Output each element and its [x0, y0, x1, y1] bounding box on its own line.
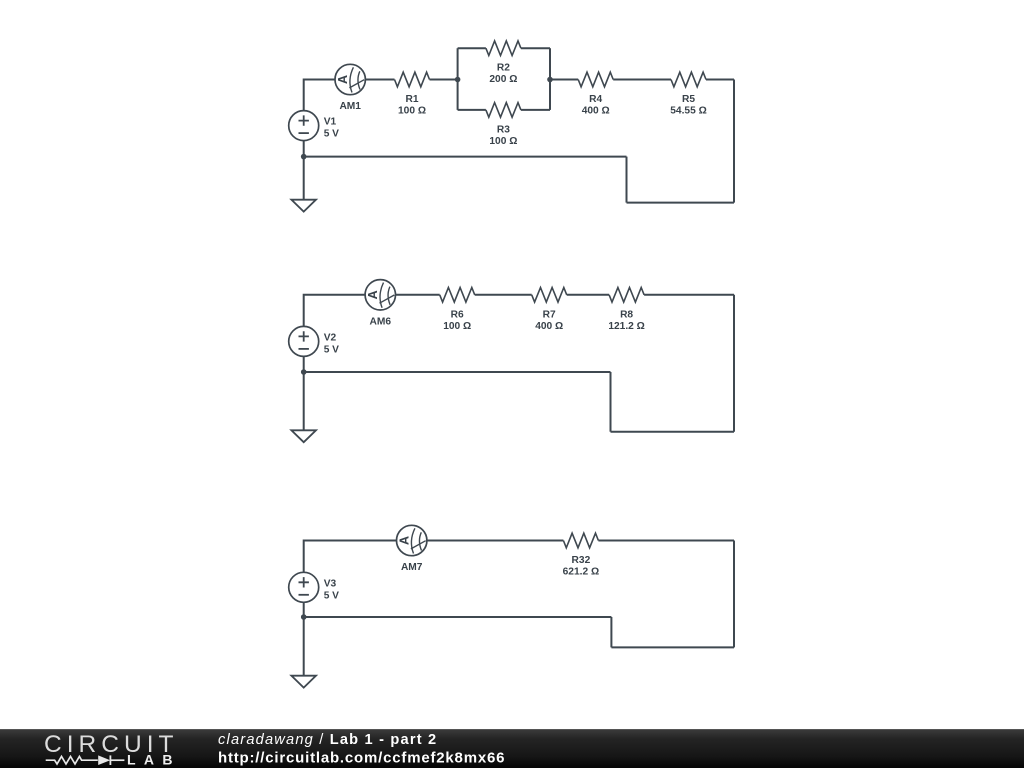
wire: [458, 47, 486, 49]
svg-text:R32: R32: [572, 555, 591, 566]
wire: [733, 80, 735, 203]
voltage source V3: [289, 572, 339, 602]
wire: [644, 294, 734, 296]
wire: [627, 202, 735, 204]
svg-text:A: A: [336, 75, 350, 84]
node junction: [301, 614, 307, 620]
svg-text:R1: R1: [405, 94, 418, 105]
wire: [598, 540, 734, 542]
wire: [706, 79, 734, 81]
svg-text:5 V: 5 V: [324, 590, 339, 601]
resistor R8: [608, 288, 645, 332]
svg-text:V2: V2: [324, 332, 337, 343]
wire: [613, 79, 671, 81]
wire: [303, 157, 305, 200]
svg-text:V1: V1: [324, 117, 337, 128]
svg-text:AM7: AM7: [401, 562, 423, 573]
svg-text:100 Ω: 100 Ω: [489, 136, 517, 147]
svg-text:V3: V3: [324, 578, 337, 589]
ground: [291, 200, 316, 212]
wire: [396, 294, 440, 296]
voltage source V2: [289, 326, 339, 356]
svg-text:100 Ω: 100 Ω: [443, 321, 471, 332]
resistor R6: [440, 288, 475, 332]
wire: [304, 80, 335, 111]
ammeter AM7: [397, 525, 427, 573]
svg-text:5 V: 5 V: [324, 344, 339, 355]
wire: [304, 156, 627, 158]
logo diode: [98, 755, 124, 765]
wire: [611, 431, 735, 433]
wire: [430, 79, 458, 81]
ammeter AM6: [365, 280, 395, 328]
wire: [304, 371, 611, 373]
svg-text:100 Ω: 100 Ω: [398, 106, 426, 117]
node junction: [455, 77, 461, 83]
wire: [304, 541, 397, 573]
svg-text:claradawang / Lab 1 - part 2: claradawang / Lab 1 - part 2: [218, 732, 437, 748]
footer background: [0, 729, 1024, 768]
wire: [733, 541, 735, 648]
wire: [733, 295, 735, 432]
resistor R2: [486, 41, 521, 85]
wire: [458, 109, 486, 111]
svg-text:54.55 Ω: 54.55 Ω: [670, 106, 707, 117]
resistor R1: [395, 72, 430, 116]
svg-text:LAB: LAB: [127, 752, 173, 768]
ground: [291, 430, 316, 442]
wire: [365, 79, 394, 81]
svg-text:R4: R4: [589, 94, 602, 105]
node junction: [547, 77, 553, 83]
wire: [521, 47, 550, 49]
svg-text:R5: R5: [682, 94, 695, 105]
svg-text:R8: R8: [620, 309, 633, 320]
resistor R4: [578, 72, 613, 116]
node junction: [301, 154, 307, 160]
svg-text:A: A: [398, 536, 412, 545]
wire: [304, 616, 612, 618]
svg-text:R2: R2: [497, 63, 510, 74]
svg-text:http://circuitlab.com/ccfmef2k: http://circuitlab.com/ccfmef2k8mx66: [218, 750, 505, 767]
node junction: [301, 369, 307, 375]
svg-text:621.2 Ω: 621.2 Ω: [563, 567, 600, 578]
svg-text:AM1: AM1: [339, 101, 361, 112]
wire: [427, 540, 564, 542]
svg-text:R3: R3: [497, 124, 510, 135]
svg-text:400 Ω: 400 Ω: [582, 106, 610, 117]
wire: [567, 294, 609, 296]
wire: [611, 646, 734, 648]
ground: [291, 676, 316, 688]
wire: [303, 372, 305, 430]
wire: [303, 356, 305, 372]
svg-text:A: A: [366, 290, 380, 299]
wire: [475, 294, 532, 296]
wire: [550, 79, 578, 81]
voltage source V1: [289, 111, 339, 141]
svg-text:5 V: 5 V: [324, 129, 339, 140]
wire: [303, 602, 305, 617]
wire: [549, 48, 551, 110]
wire: [626, 157, 628, 203]
wire: [457, 48, 459, 110]
wire: [521, 109, 550, 111]
svg-text:200 Ω: 200 Ω: [489, 74, 517, 85]
wire: [610, 372, 612, 432]
wire: [303, 617, 305, 676]
wire: [304, 295, 365, 327]
wire: [303, 141, 305, 157]
svg-text:400 Ω: 400 Ω: [535, 321, 563, 332]
svg-text:R7: R7: [543, 309, 556, 320]
svg-text:121.2 Ω: 121.2 Ω: [608, 321, 645, 332]
svg-text:AM6: AM6: [370, 317, 392, 328]
ammeter AM1: [335, 64, 365, 112]
resistor R5: [670, 72, 707, 116]
svg-text:R6: R6: [451, 309, 464, 320]
resistor R3: [486, 103, 521, 147]
logo resistor squiggle: [46, 756, 98, 764]
resistor R7: [532, 288, 567, 332]
wire: [610, 617, 612, 647]
resistor R32: [563, 533, 600, 577]
